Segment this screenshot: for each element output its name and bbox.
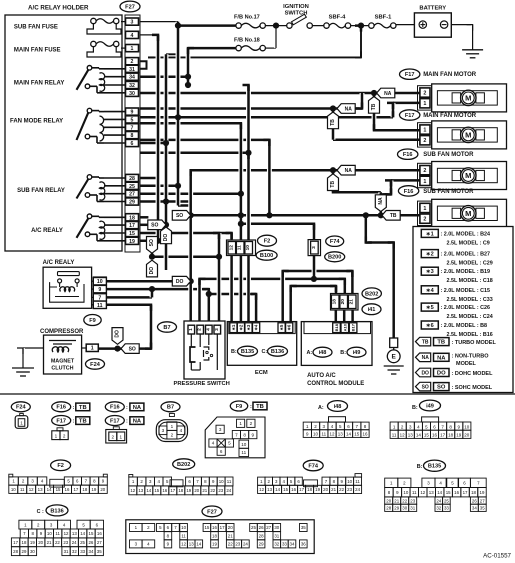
svg-text::: :: [126, 405, 128, 411]
svg-text:31: 31: [274, 533, 279, 538]
svg-text:17: 17: [299, 487, 304, 492]
svg-text::: :: [126, 419, 128, 425]
svg-text:9: 9: [252, 432, 255, 437]
svg-text:1: 1: [20, 421, 23, 426]
svg-text:MODEL: MODEL: [456, 361, 477, 367]
svg-text:B:: B:: [340, 350, 346, 356]
svg-text:2: 2: [112, 435, 115, 440]
svg-text:10: 10: [181, 525, 186, 530]
svg-text:21: 21: [331, 487, 336, 492]
svg-text:22: 22: [402, 498, 407, 503]
svg-text:34: 34: [129, 75, 135, 81]
svg-text:ECM: ECM: [255, 370, 268, 376]
svg-text:15: 15: [283, 487, 288, 492]
svg-text:17: 17: [463, 490, 468, 495]
svg-text:A/C REALY: A/C REALY: [31, 228, 63, 234]
svg-text:SO: SO: [151, 223, 158, 229]
svg-text:∗5: ∗5: [279, 324, 284, 331]
svg-text:A:: A:: [318, 405, 324, 411]
svg-text:2.5L MODEL : C18: 2.5L MODEL : C18: [447, 278, 493, 284]
svg-text:22: 22: [55, 540, 60, 545]
svg-text:4: 4: [205, 328, 211, 331]
svg-text:B:: B:: [417, 464, 423, 470]
svg-text:17: 17: [440, 433, 446, 438]
svg-text:11: 11: [321, 432, 326, 437]
svg-text:15: 15: [89, 531, 94, 536]
svg-text:12: 12: [259, 487, 264, 492]
svg-text:C :: C :: [37, 509, 44, 515]
svg-text:TB: TB: [256, 404, 264, 410]
svg-text:10: 10: [245, 245, 251, 251]
svg-text:13: 13: [189, 542, 194, 547]
svg-text:14: 14: [416, 433, 422, 438]
svg-text:32: 32: [72, 549, 77, 554]
svg-text:32: 32: [274, 542, 279, 547]
svg-text:33: 33: [80, 549, 85, 554]
svg-text:E: E: [392, 354, 397, 361]
svg-text:2.5L MODEL : C33: 2.5L MODEL : C33: [447, 297, 493, 303]
svg-text:F74: F74: [308, 463, 319, 469]
svg-text:B202: B202: [365, 291, 378, 297]
svg-text:19: 19: [91, 487, 96, 492]
svg-text:10: 10: [97, 279, 103, 285]
svg-text:24: 24: [436, 498, 441, 503]
svg-text:AUTO A/C: AUTO A/C: [307, 373, 336, 379]
svg-text:DO: DO: [176, 279, 184, 285]
svg-text:8: 8: [131, 133, 134, 139]
svg-text:15: 15: [204, 525, 209, 530]
svg-text:F16: F16: [403, 152, 413, 158]
svg-text:B136: B136: [271, 349, 284, 355]
svg-text:25: 25: [80, 540, 85, 545]
svg-text:NA: NA: [378, 197, 384, 205]
svg-text:B17: B17: [351, 323, 356, 331]
svg-text:27: 27: [480, 498, 485, 503]
svg-text:F16: F16: [404, 189, 414, 195]
svg-text:13: 13: [138, 488, 143, 493]
svg-text:18: 18: [212, 533, 217, 538]
svg-text:: 2.0L MODEL : B24: : 2.0L MODEL : B24: [441, 231, 491, 237]
svg-text:F9: F9: [236, 404, 243, 410]
svg-text:2.5L MODEL : C9: 2.5L MODEL : C9: [447, 240, 490, 246]
svg-text:SUB FAN MOTOR: SUB FAN MOTOR: [423, 152, 474, 158]
svg-text:16: 16: [65, 487, 70, 492]
svg-text:13: 13: [429, 490, 434, 495]
svg-text:1: 1: [171, 424, 174, 429]
svg-text:2: 2: [423, 168, 426, 174]
svg-text:11: 11: [181, 533, 186, 538]
svg-text:F16: F16: [110, 405, 120, 411]
svg-text:11: 11: [55, 531, 60, 536]
svg-text:21: 21: [394, 498, 399, 503]
svg-text:10: 10: [403, 490, 408, 495]
svg-text:DO: DO: [149, 267, 155, 275]
svg-text:12: 12: [400, 433, 406, 438]
svg-text:15: 15: [154, 488, 159, 493]
svg-text:2: 2: [250, 421, 253, 426]
svg-text:∗6: ∗6: [426, 323, 434, 329]
svg-text:21: 21: [349, 299, 355, 305]
svg-text:SO: SO: [437, 385, 446, 391]
svg-text:23: 23: [235, 542, 240, 547]
svg-text:A/C RELAY HOLDER: A/C RELAY HOLDER: [28, 5, 89, 12]
svg-text:29: 29: [22, 549, 27, 554]
svg-text:DO: DO: [421, 370, 429, 376]
svg-text:M: M: [465, 94, 471, 103]
svg-text:17: 17: [13, 540, 18, 545]
svg-text:F27: F27: [207, 509, 217, 515]
svg-text:3: 3: [214, 328, 220, 331]
svg-text:18: 18: [307, 487, 312, 492]
svg-text:19: 19: [480, 490, 485, 495]
svg-text:29: 29: [394, 506, 399, 511]
svg-text:32: 32: [129, 83, 135, 89]
svg-text:16: 16: [454, 490, 459, 495]
svg-text:20: 20: [386, 498, 391, 503]
svg-text:9: 9: [98, 287, 101, 293]
svg-text:7: 7: [131, 125, 134, 131]
svg-text:2: 2: [423, 138, 426, 144]
svg-text:11: 11: [241, 450, 246, 455]
svg-text:5: 5: [131, 117, 134, 123]
svg-text:1: 1: [423, 179, 426, 185]
svg-text:10: 10: [347, 479, 352, 484]
svg-text:6: 6: [220, 449, 223, 454]
svg-text:F74: F74: [330, 239, 341, 245]
svg-text:A/C REALY: A/C REALY: [43, 260, 75, 266]
svg-text:F/B No.18: F/B No.18: [234, 37, 260, 43]
svg-text:TB: TB: [79, 405, 87, 411]
svg-text:29: 29: [129, 200, 135, 206]
svg-text:DO: DO: [437, 371, 446, 377]
svg-text:13: 13: [408, 433, 414, 438]
svg-text:10: 10: [241, 442, 247, 447]
svg-text:17: 17: [170, 488, 175, 493]
svg-text:4: 4: [131, 33, 134, 39]
svg-text:1: 1: [423, 128, 426, 134]
svg-text:F24: F24: [16, 405, 27, 411]
svg-text:TB: TB: [422, 340, 429, 346]
svg-text:15: 15: [446, 490, 451, 495]
svg-text:9: 9: [131, 110, 134, 116]
svg-text:F9: F9: [89, 318, 96, 324]
svg-text:1: 1: [120, 435, 123, 440]
svg-text:19: 19: [315, 487, 320, 492]
svg-text:i48: i48: [334, 404, 342, 410]
svg-text:16: 16: [162, 488, 167, 493]
svg-text:3: 3: [311, 246, 317, 249]
svg-text:8: 8: [243, 432, 246, 437]
svg-text:F2: F2: [264, 239, 271, 245]
svg-text:2.5L MODEL : B16: 2.5L MODEL : B16: [447, 332, 493, 338]
svg-text:12: 12: [330, 432, 336, 437]
svg-text:20: 20: [100, 487, 105, 492]
svg-text:: 2.0L MODEL : B27: : 2.0L MODEL : B27: [441, 252, 491, 258]
svg-text:30: 30: [274, 525, 279, 530]
svg-text:20: 20: [38, 540, 43, 545]
svg-text:33: 33: [444, 506, 449, 511]
svg-text:F24: F24: [90, 362, 101, 368]
svg-text:7: 7: [235, 432, 238, 437]
svg-text:CONTROL MODULE: CONTROL MODULE: [307, 381, 364, 387]
svg-text:11: 11: [227, 479, 232, 484]
svg-text:33: 33: [282, 542, 287, 547]
svg-text:16: 16: [291, 487, 296, 492]
svg-text:25: 25: [251, 525, 256, 530]
svg-text:F17: F17: [405, 113, 415, 119]
svg-text:19: 19: [186, 488, 191, 493]
svg-text:SO: SO: [149, 239, 155, 246]
svg-text:22: 22: [210, 488, 215, 493]
svg-text:19: 19: [456, 433, 462, 438]
svg-text:∗2: ∗2: [426, 252, 434, 258]
svg-text:COMPRESSOR: COMPRESSOR: [40, 329, 84, 335]
svg-text:TB: TB: [79, 419, 87, 425]
svg-text:F17: F17: [405, 72, 415, 78]
svg-text:NA: NA: [345, 168, 353, 174]
svg-text:1: 1: [239, 421, 242, 426]
svg-text:2: 2: [197, 328, 203, 331]
svg-text:23: 23: [63, 540, 68, 545]
svg-text:IGNITION: IGNITION: [283, 4, 309, 10]
svg-text:M: M: [465, 171, 471, 180]
svg-text:16: 16: [97, 531, 102, 536]
svg-text:10: 10: [313, 432, 319, 437]
svg-text:: SOHC MODEL: : SOHC MODEL: [452, 385, 493, 391]
svg-text:14: 14: [196, 542, 201, 547]
svg-text:1: 1: [131, 46, 134, 52]
svg-text:1: 1: [188, 328, 194, 331]
svg-text:20: 20: [464, 433, 470, 438]
svg-text:11: 11: [237, 245, 243, 250]
svg-text:28: 28: [386, 506, 391, 511]
svg-text:23: 23: [410, 498, 415, 503]
svg-text:15: 15: [424, 433, 430, 438]
svg-text:15: 15: [56, 487, 61, 492]
svg-text:20: 20: [194, 488, 199, 493]
svg-text:11: 11: [97, 303, 103, 309]
svg-text:∗3: ∗3: [246, 324, 251, 331]
svg-text:SUB FAN FUSE: SUB FAN FUSE: [14, 25, 58, 31]
svg-text:∗6: ∗6: [287, 324, 292, 331]
svg-text:B:: B:: [231, 349, 237, 355]
svg-text:F17: F17: [110, 418, 120, 424]
svg-text:23: 23: [347, 487, 352, 492]
svg-text:28: 28: [13, 549, 18, 554]
svg-text:12: 12: [29, 487, 34, 492]
svg-text:3: 3: [219, 427, 222, 432]
svg-text:: 2.0L MODEL : B8: : 2.0L MODEL : B8: [441, 323, 488, 329]
svg-text:B18: B18: [334, 323, 339, 331]
svg-text:14: 14: [80, 531, 85, 536]
svg-text:SUB FAN MOTOR: SUB FAN MOTOR: [423, 189, 474, 195]
svg-text:31: 31: [129, 67, 135, 73]
svg-text:15: 15: [129, 231, 135, 237]
svg-text:∗4: ∗4: [254, 324, 259, 331]
svg-text:: TURBO MODEL: : TURBO MODEL: [452, 340, 497, 346]
svg-text:B100: B100: [260, 253, 273, 259]
svg-text:2.5L MODEL : C24: 2.5L MODEL : C24: [447, 314, 493, 320]
svg-text:: 2.0L MODEL : C15: : 2.0L MODEL : C15: [441, 288, 491, 294]
svg-text:NA: NA: [437, 355, 446, 361]
svg-text:2: 2: [171, 432, 174, 437]
svg-text:F2: F2: [57, 463, 64, 469]
svg-text:B202: B202: [177, 462, 190, 468]
svg-text:13: 13: [38, 487, 43, 492]
svg-text:16: 16: [432, 433, 438, 438]
svg-text:5: 5: [228, 441, 231, 446]
svg-text:2: 2: [131, 59, 134, 65]
svg-text:26: 26: [259, 525, 264, 530]
svg-text:F27: F27: [125, 4, 135, 10]
svg-text:11: 11: [20, 487, 25, 492]
svg-text:34: 34: [472, 506, 477, 511]
svg-text:12: 12: [64, 531, 69, 536]
svg-text:14: 14: [437, 490, 442, 495]
svg-text:21: 21: [202, 488, 207, 493]
svg-text:C:: C:: [262, 349, 268, 355]
svg-text:B136: B136: [50, 508, 63, 514]
svg-text:TB: TB: [330, 181, 336, 188]
svg-text:∗4: ∗4: [426, 288, 435, 294]
svg-text:30: 30: [402, 506, 407, 511]
svg-text:34: 34: [89, 549, 94, 554]
svg-text:B135: B135: [428, 464, 441, 470]
svg-text:SBF-4: SBF-4: [329, 14, 347, 20]
svg-text:12: 12: [130, 488, 135, 493]
svg-text:11: 11: [392, 433, 397, 438]
svg-text:31: 31: [64, 549, 69, 554]
svg-text::: :: [73, 405, 75, 411]
svg-text:SUB FAN RELAY: SUB FAN RELAY: [17, 188, 65, 194]
svg-text:2: 2: [423, 91, 426, 97]
svg-text:18: 18: [471, 490, 476, 495]
svg-text:∗2: ∗2: [238, 324, 243, 331]
svg-text:15: 15: [354, 432, 360, 437]
svg-text:MAIN FAN RELAY: MAIN FAN RELAY: [14, 80, 64, 86]
svg-text:1: 1: [423, 101, 426, 107]
svg-text:24: 24: [226, 488, 231, 493]
svg-text:NA: NA: [384, 91, 392, 97]
svg-text:11: 11: [412, 490, 417, 495]
svg-text:SO: SO: [176, 213, 183, 219]
svg-text:B7: B7: [163, 325, 170, 331]
svg-text:23: 23: [218, 488, 223, 493]
svg-text:∗3: ∗3: [426, 269, 434, 275]
svg-text:1: 1: [423, 206, 426, 212]
svg-text:TB: TB: [371, 103, 377, 110]
svg-text:18: 18: [82, 487, 87, 492]
svg-text:27: 27: [129, 192, 135, 198]
svg-text:34: 34: [290, 542, 295, 547]
svg-text:i41: i41: [368, 307, 376, 313]
svg-text:∗1: ∗1: [231, 324, 236, 331]
svg-text:B200: B200: [328, 255, 341, 261]
svg-text:20: 20: [228, 525, 233, 530]
svg-text:32: 32: [436, 506, 441, 511]
svg-text:30: 30: [30, 549, 35, 554]
svg-text:26: 26: [472, 498, 477, 503]
svg-text:M: M: [465, 209, 471, 218]
svg-text:27: 27: [266, 525, 271, 530]
svg-text:17: 17: [220, 525, 225, 530]
svg-text:MAIN FAN MOTOR: MAIN FAN MOTOR: [423, 113, 477, 119]
svg-text:DO: DO: [115, 330, 121, 338]
svg-text:TB: TB: [330, 119, 336, 126]
svg-text:NA: NA: [422, 355, 430, 361]
svg-text:24: 24: [243, 542, 248, 547]
svg-text:17: 17: [73, 487, 78, 492]
svg-text:13: 13: [338, 432, 344, 437]
svg-text:11: 11: [355, 479, 360, 484]
svg-text:14: 14: [346, 432, 352, 437]
svg-text:3: 3: [162, 428, 165, 433]
svg-text:1: 1: [91, 346, 94, 352]
svg-text:10: 10: [219, 479, 224, 484]
svg-text:SO: SO: [422, 385, 429, 391]
svg-text:A:: A:: [307, 350, 313, 356]
svg-text:28: 28: [129, 176, 135, 182]
svg-text:10: 10: [464, 424, 470, 429]
svg-text:1: 1: [55, 433, 58, 438]
svg-text:2: 2: [63, 433, 66, 438]
svg-text:PRESSURE SWITCH: PRESSURE SWITCH: [174, 381, 230, 387]
svg-text:18: 18: [22, 540, 27, 545]
svg-text:3: 3: [131, 20, 134, 26]
svg-text:MAIN FAN MOTOR: MAIN FAN MOTOR: [423, 72, 477, 78]
svg-text:12: 12: [228, 245, 234, 251]
svg-text:FAN MODE RELAY: FAN MODE RELAY: [10, 119, 63, 125]
svg-text:NA: NA: [133, 405, 142, 411]
svg-text:25: 25: [444, 498, 449, 503]
svg-text:i49: i49: [353, 350, 361, 356]
svg-text:30: 30: [129, 91, 135, 97]
svg-text:28: 28: [259, 533, 264, 538]
svg-text::: :: [73, 419, 75, 425]
svg-text:14: 14: [47, 487, 52, 492]
svg-text:13: 13: [267, 487, 272, 492]
svg-text:16: 16: [362, 432, 368, 437]
svg-text:16: 16: [212, 525, 217, 530]
svg-text:25: 25: [129, 184, 135, 190]
svg-text:27: 27: [97, 540, 102, 545]
svg-text:A10: A10: [342, 323, 347, 331]
svg-text:35: 35: [97, 549, 102, 554]
svg-text:18: 18: [448, 433, 454, 438]
svg-text:NA: NA: [133, 419, 142, 425]
svg-text:B:: B:: [412, 405, 418, 411]
svg-text:14: 14: [146, 488, 151, 493]
svg-text:TB: TB: [437, 340, 445, 346]
svg-text:B7: B7: [167, 405, 174, 411]
svg-text:M: M: [465, 131, 471, 140]
svg-text:BATTERY: BATTERY: [419, 6, 446, 12]
svg-text:18: 18: [129, 215, 135, 221]
svg-text:6: 6: [131, 141, 134, 147]
svg-text:31: 31: [410, 506, 415, 511]
svg-text:∗1: ∗1: [426, 231, 434, 237]
svg-text:: 2.0L MODEL : B19: : 2.0L MODEL : B19: [441, 269, 491, 275]
svg-text:: NON-TURBO: : NON-TURBO: [452, 354, 490, 360]
svg-text:AC-01557: AC-01557: [483, 553, 511, 560]
svg-text:DO: DO: [163, 234, 169, 242]
svg-text:∗5: ∗5: [426, 305, 434, 311]
svg-text:F17: F17: [56, 418, 66, 424]
svg-text:4: 4: [180, 428, 183, 433]
svg-text:29: 29: [259, 542, 264, 547]
svg-text:22: 22: [228, 542, 233, 547]
svg-text:19: 19: [129, 239, 135, 245]
